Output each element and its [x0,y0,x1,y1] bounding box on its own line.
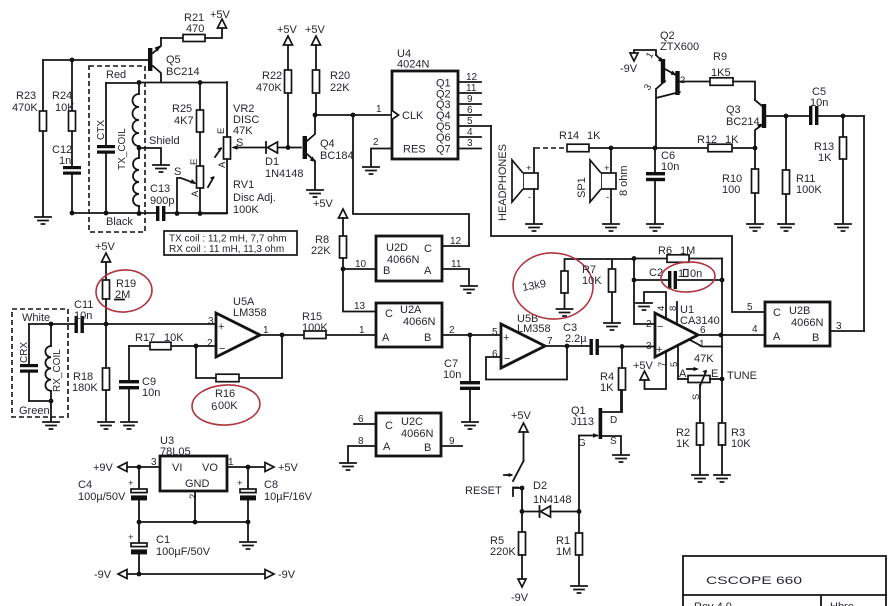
node C12 bottom [70,211,75,216]
svg-text:10: 10 [355,259,367,270]
svg-text:Red: Red [106,69,126,81]
pin 12 U4 Q1 [458,72,481,83]
resistor R21 [161,12,222,42]
title block CSCOPE 660 [683,556,886,606]
wire Q5 base bus y60 [43,59,148,61]
ground C7 [462,422,478,429]
power +5V reset [511,410,532,461]
node TX coil top [137,80,142,85]
power +5V R20 [305,24,326,45]
resistor R20 [313,45,351,114]
svg-text:LM358: LM358 [233,307,267,319]
wire R14 to C6 node [611,147,655,149]
svg-text:6: 6 [700,325,706,336]
IC U3 78L05 [151,435,234,499]
transistor Q5 [148,38,200,82]
wire U4 pin5 to U2B control [491,126,765,312]
resistor R13 [814,116,847,223]
svg-text:3: 3 [467,138,473,149]
ground Q1 source [613,455,629,462]
wire U2D pin10 [343,259,376,270]
svg-text:470K: 470K [256,82,282,94]
node CTX bottom [104,211,109,216]
svg-text:4K7: 4K7 [174,115,194,127]
svg-text:+: + [128,478,134,489]
node SP1 R14 [609,146,614,151]
switch RESET [465,461,524,497]
node C6 Q2 collector [653,146,658,151]
svg-text:220K: 220K [490,546,516,558]
svg-text:TUNE: TUNE [727,370,757,382]
svg-text:+5V: +5V [633,360,654,372]
svg-text:7: 7 [547,336,553,347]
svg-text:−: − [504,353,510,365]
svg-text:100K: 100K [302,322,328,334]
svg-text:A: A [382,332,390,344]
svg-text:4066N: 4066N [403,316,435,328]
svg-text:A: A [217,161,228,168]
svg-text:A: A [679,368,687,380]
node RV1 bottom [198,211,203,216]
annotation red circle R19 [95,268,154,314]
RX coil dashed box [12,309,68,417]
svg-text:13: 13 [354,301,366,312]
wire Q5 collector to tank [139,82,227,84]
svg-text:A: A [190,190,201,197]
svg-text:1M: 1M [556,546,571,558]
svg-text:1K: 1K [587,130,601,142]
node C8 rail [246,520,251,525]
svg-text:C4: C4 [78,479,92,491]
svg-text:+: + [604,163,610,174]
node C5 right R13 [841,114,846,119]
svg-text:12: 12 [466,72,478,83]
resistor R17 [129,332,196,350]
wire TX tank bottom [72,212,227,214]
node C11 right [104,322,109,327]
svg-text:180K: 180K [72,382,98,394]
svg-text:47K: 47K [694,353,714,365]
ground R13 [835,224,851,231]
svg-text:R22: R22 [262,70,282,82]
resistor R18 [72,324,110,421]
svg-text:S: S [174,166,181,178]
power +5V output [265,462,299,474]
ground R18 [98,422,114,429]
svg-text:2: 2 [207,338,213,349]
node D2 R1 [577,509,582,514]
svg-text:RX coil : 11 mH, 11,3 ohm: RX coil : 11 mH, 11,3 ohm [169,244,284,255]
svg-text:1K5: 1K5 [711,67,731,79]
svg-text:+5V: +5V [278,462,299,474]
pin 3 U4 Q7 [458,138,481,149]
svg-text:D: D [610,415,617,426]
svg-text:8: 8 [358,436,364,447]
power +5V R19 [95,241,116,280]
svg-text:47K: 47K [233,125,253,137]
ground R1 [571,586,587,593]
svg-text:+: + [128,532,134,543]
resistor R22 [256,45,292,145]
svg-text:3: 3 [646,341,652,352]
svg-text:10K: 10K [731,438,751,450]
svg-text:00K: 00K [218,400,238,412]
ground C9 [121,422,137,429]
node C2 left [632,278,637,283]
svg-text:RES: RES [403,144,426,156]
svg-text:5: 5 [492,327,498,338]
svg-text:CTX: CTX [96,120,107,140]
svg-text:2: 2 [188,494,199,499]
svg-text:100: 100 [722,184,740,196]
svg-text:1K: 1K [725,134,739,146]
resistor R14 [535,130,611,152]
svg-text:Q3: Q3 [726,104,741,116]
ground C6 [647,224,663,231]
svg-text:-9V: -9V [278,569,296,581]
svg-text:9: 9 [449,436,455,447]
svg-text:C13: C13 [150,183,170,195]
svg-text:10K: 10K [582,275,602,287]
svg-text:Q5: Q5 [166,54,181,66]
pin 9 U2C [441,436,462,447]
resistor R25 [172,82,204,166]
capacitor C12 [52,144,81,213]
node C1 bottom [137,572,142,577]
capacitor C7 [443,335,480,421]
svg-text:E: E [711,368,718,380]
svg-text:−: − [219,343,225,355]
node Q4 base / R22 [286,145,291,150]
pin 5 U4 Q5 [458,116,491,127]
resistor 13k9 mod [561,259,608,308]
transistor Q3 [726,100,786,148]
transistor Q4 [303,116,354,189]
op-amp U5A [207,296,267,357]
power -9V rail [94,569,296,581]
svg-text:Shield: Shield [149,135,180,147]
svg-text:-9V: -9V [511,592,529,604]
power +5V U1 pin7 [633,352,666,389]
node RX coil top [49,322,54,327]
svg-text:-9V: -9V [620,63,638,75]
node TX coil bottom [137,211,142,216]
svg-text:C: C [424,243,432,255]
svg-text:S: S [610,436,617,447]
svg-text:C1: C1 [156,534,170,546]
svg-text:10n: 10n [74,310,92,322]
svg-text:R24: R24 [52,90,72,102]
svg-text:5: 5 [747,302,753,313]
ground RX coil [43,422,59,429]
svg-text:VI: VI [172,462,182,474]
svg-text:+5V: +5V [95,241,116,253]
wire U5B feedback [486,346,567,380]
svg-text:1n: 1n [59,155,71,167]
svg-text:Q6: Q6 [436,132,451,144]
power +9V input [93,462,160,474]
svg-text:White: White [22,312,50,324]
svg-text:2.2µ: 2.2µ [565,333,587,345]
capacitor C13 [150,183,174,221]
svg-text:C: C [773,307,781,319]
svg-text:C: C [385,420,393,432]
svg-text:10K: 10K [164,332,184,344]
svg-text:J113: J113 [571,416,594,428]
svg-text:2: 2 [680,75,685,86]
node U2A pin2 junction [468,333,473,338]
potentiometer RV1 [174,159,276,216]
resistor R4 [600,347,626,413]
ground C8 [240,542,256,549]
svg-text:R23: R23 [16,90,36,102]
inductor RX_COIL [45,324,63,401]
svg-text:Disc Adj.: Disc Adj. [233,192,276,204]
svg-text:R14: R14 [559,130,579,142]
pin 12 U2D [442,236,469,247]
wire shield tap [139,148,161,164]
svg-text:2: 2 [449,325,455,336]
node CLK branch [351,113,356,118]
svg-text:R20: R20 [330,70,350,82]
potentiometer VR2 [200,82,266,214]
svg-text:9: 9 [467,94,473,105]
svg-text:22K: 22K [311,245,331,257]
svg-text:100µF/50V: 100µF/50V [156,546,211,558]
node R24 top [70,58,75,63]
svg-text:−: − [657,321,663,333]
svg-text:R25: R25 [172,103,192,115]
power -9V Q2 [620,50,656,75]
resistor R24 [52,60,76,166]
svg-text:Rev 4.0: Rev 4.0 [694,601,732,606]
resistor R5 [490,512,526,579]
capacitor C9 [119,346,160,421]
node R8 bottom [341,267,346,272]
svg-text:+5V: +5V [305,24,326,36]
svg-text:100K: 100K [796,184,822,196]
svg-text:8 ohm: 8 ohm [618,165,630,196]
svg-text:VO: VO [202,462,218,474]
wire U1 pin2 [634,323,655,325]
IC U2A 4066N [376,303,442,347]
wire to U5B pin5 [470,334,501,336]
wire U1 pin4 to ground [644,292,666,318]
resistor R16 feedback [196,335,282,413]
svg-text:B: B [424,332,431,344]
ground R23 [35,217,51,224]
svg-text:C8: C8 [264,479,278,491]
power +5V R22 [277,24,298,45]
svg-text:1: 1 [359,325,365,336]
capacitor C6 [646,148,679,223]
resistor R9 [710,51,755,100]
resistor R7 [582,259,634,322]
svg-text:R9: R9 [713,51,727,63]
svg-text:TX coil : 11,2 mH, 7,7 ohm: TX coil : 11,2 mH, 7,7 ohm [169,234,287,245]
node C4 top [137,465,142,470]
capacitor C8 [237,467,313,541]
node Q3 emitter R12 R10 [753,146,758,151]
diode D2 [522,480,579,517]
IC U2B 4066N [747,302,830,346]
svg-text:4: 4 [467,127,473,138]
resistor R1 [556,512,583,586]
pin 1 U1 stub [690,339,722,350]
annotation red circle C2 [660,261,715,294]
svg-text:B: B [383,265,390,277]
node R5 top [520,509,525,514]
power +5V Q4 emitter [307,190,334,210]
node U5A output [280,333,285,338]
svg-text:LM358: LM358 [517,323,551,335]
svg-text:+5V: +5V [277,24,298,36]
ground 13k9 resistor [557,309,573,316]
svg-text:Black: Black [106,216,133,228]
IC U2C 4066N [376,413,441,456]
wire CLK net [315,114,392,116]
resistor R19 [103,278,137,324]
power +5V R21 [210,9,231,28]
svg-text:E: E [216,128,227,134]
wire U5A output [260,325,282,336]
svg-text:1K: 1K [600,382,614,394]
wire CLK to U2D pin12 [353,115,469,246]
svg-text:1: 1 [376,104,382,115]
pin 8 U2C [348,436,376,462]
svg-text:+: + [503,332,509,344]
svg-text:12: 12 [450,236,462,247]
svg-text:6: 6 [467,105,473,116]
power +5V R8 arrow [339,209,348,236]
wire U1 output [698,324,765,336]
svg-text:10n: 10n [661,161,679,173]
TX coil dashed box [89,66,145,232]
svg-text:4: 4 [752,324,758,335]
pin 1 U2A [326,325,376,336]
annotation red circle 13k9 [511,251,594,321]
svg-text:RX_COIL: RX_COIL [52,349,63,392]
svg-text:6: 6 [492,349,498,360]
wire to U1 pin3 [622,346,655,348]
ground R11 [778,224,794,231]
pin 6 U4 Q4 [458,105,481,116]
svg-text:BC214: BC214 [166,66,200,78]
svg-text:11: 11 [466,83,477,94]
svg-text:BC214: BC214 [726,116,760,128]
svg-text:R17: R17 [135,332,155,344]
resistor R11 [783,116,823,223]
wire CTX top [106,82,139,84]
wire to U5A pin3 [106,323,216,325]
node U5B output [565,344,570,349]
wire R8 to U2A pin13 [343,269,376,312]
svg-text:+: + [237,478,243,489]
wire RX top [29,323,75,325]
speaker SP1 [576,148,630,223]
pin 4 U4 Q6 [458,127,481,138]
ground U2D pin11 [461,286,477,293]
capacitor CRX [19,324,38,401]
node switch bottom [520,486,525,491]
power -9V R5 [511,579,529,604]
svg-text:+5V: +5V [313,198,334,210]
svg-text:U2C: U2C [401,416,423,428]
svg-text:78L05: 78L05 [160,446,191,458]
pin 3 U2B [830,321,864,332]
capacitor C4 [78,467,147,522]
svg-text:Q4: Q4 [320,138,335,150]
resistor R23 [12,60,47,216]
ground R3 [714,475,730,482]
svg-text:CLK: CLK [402,110,424,122]
wire output bus to U2B pin3 [863,116,865,331]
wire U4 RES pin2 [371,149,392,167]
ground R7 [604,323,620,330]
svg-text:C: C [385,308,393,320]
svg-text:GND: GND [185,478,210,490]
node C3 right R4 [620,344,625,349]
pin 2 U2A [442,325,470,336]
node U1 output [719,333,724,338]
svg-text:+: + [218,321,224,333]
svg-text:R16: R16 [215,388,235,400]
wire ground rail U3 [139,491,248,522]
node RV1 wiper tap [175,211,180,216]
svg-text:0n: 0n [690,268,702,280]
svg-text:+5V: +5V [511,410,532,422]
svg-text:B: B [424,442,431,454]
svg-text:-: - [606,192,609,203]
svg-text:+: + [656,344,662,356]
ground SP1 [603,224,619,231]
node R6 left [632,256,637,261]
speaker HEADPHONES [497,144,538,223]
capacitor CTX [96,83,115,213]
svg-text:100K: 100K [233,204,259,216]
node TX coil mid [137,146,142,151]
transistor Q2 darlington [642,30,710,148]
svg-text:RV1: RV1 [233,179,254,191]
ground R2 [692,475,708,482]
svg-text:BC184: BC184 [320,150,354,162]
svg-text:ZTX600: ZTX600 [660,41,699,53]
svg-text:4066N: 4066N [401,428,433,440]
capacitor C11 [74,299,106,333]
pin 11 U4 Q2 [458,83,481,94]
svg-text:470K: 470K [12,102,38,114]
svg-text:1N4148: 1N4148 [533,494,572,506]
pin 5 U1 to tune pot [677,345,679,379]
ground shield [149,135,180,172]
svg-text:U2B: U2B [789,305,810,317]
node GND rail [137,520,198,525]
svg-text:CSCOPE 660: CSCOPE 660 [706,575,802,587]
resistor R10 [722,148,759,223]
annotation handwritten 13k9 [521,278,547,294]
wire switch to D2 [521,488,523,512]
svg-text:1K: 1K [676,438,690,450]
wire +5V output [227,466,265,468]
annotation red circle R16 [191,383,261,427]
wire Q1 gate to D2 node [578,436,580,512]
transistor Q1 J113 [571,390,621,454]
svg-text:CRX: CRX [19,342,30,363]
svg-text:-: - [528,192,531,203]
node U5A pin2 [194,344,199,349]
capacitor C3 [563,322,622,355]
op-amp U1 CA3140 [646,304,720,367]
